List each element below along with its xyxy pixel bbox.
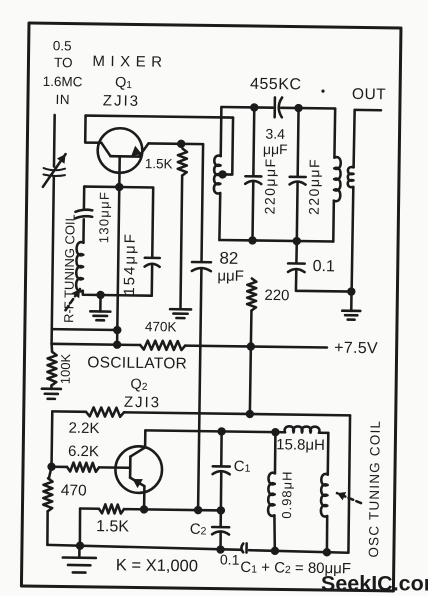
capacitor C1 — [220, 431, 223, 466]
speck — [321, 90, 324, 93]
wire 1.5K to ground — [180, 176, 182, 309]
svg-text:MIXER: MIXER — [92, 53, 167, 71]
coil IF secondary — [333, 109, 336, 158]
svg-text:OUT: OUT — [352, 86, 386, 103]
svg-text:82: 82 — [219, 249, 238, 268]
wire osc top line left — [52, 410, 86, 413]
capacitor 0.1 series — [241, 544, 243, 553]
wire IF primary top — [219, 107, 222, 156]
wire collector line — [145, 430, 285, 432]
node ground bottom — [76, 541, 85, 550]
svg-text:SeekIC.com: SeekIC.com — [321, 572, 428, 596]
node C2 bottom — [216, 545, 225, 554]
wire +7.5V rail left — [52, 344, 141, 345]
capacitor 0.1 IF — [295, 241, 298, 263]
Q2 base bar — [129, 457, 132, 478]
wire base column through box — [117, 187, 119, 345]
node IF top right — [294, 104, 303, 113]
wire Q1 emitter right — [148, 142, 203, 145]
wire Q1 collector left — [85, 116, 102, 143]
svg-text:TO: TO — [54, 55, 73, 70]
wire IF bottom line — [219, 240, 333, 242]
wire emitter to 82uuF — [202, 144, 204, 262]
svg-text:220μμF: 220μμF — [306, 158, 323, 215]
wire antenna junction horizontal — [52, 328, 117, 331]
Q1 base lead down — [118, 156, 121, 187]
resistor 470K — [140, 341, 185, 351]
wire osc left column — [50, 411, 53, 466]
node C1 top — [217, 427, 226, 436]
RF tank bottom edge — [83, 291, 152, 296]
coil 0.98uH — [274, 432, 277, 473]
Q2 collector lead — [130, 430, 145, 457]
Q1 base bar — [111, 155, 139, 158]
coil IF primary — [214, 156, 221, 194]
RF tank box top — [84, 185, 153, 188]
coil output coupling — [354, 110, 355, 167]
wire +7.5V rail right — [185, 346, 327, 348]
node 0.98uH top — [271, 428, 280, 437]
Q2 emitter lead with arrow — [130, 478, 145, 486]
ground output — [350, 292, 353, 311]
node feedback join — [194, 506, 203, 515]
node osc coil bottom — [323, 548, 332, 557]
node base-antenna junction — [113, 326, 122, 335]
svg-text:ZJI3: ZJI3 — [103, 92, 140, 109]
svg-text:K = X1,000: K = X1,000 — [116, 556, 198, 575]
arrow RF coil pointer — [65, 289, 80, 311]
capacitor C2 — [219, 510, 222, 526]
Q1 collector lead — [101, 143, 110, 156]
resistor 470 — [43, 478, 52, 511]
svg-text:154μμF: 154μμF — [121, 232, 139, 296]
svg-text:470K: 470K — [145, 319, 177, 334]
wire Q1 collector top line — [86, 116, 233, 118]
ground 100K — [50, 385, 53, 388]
wire bottom rail right — [249, 550, 349, 553]
wire below 130uuF — [82, 219, 85, 242]
coil osc tuning right — [326, 433, 329, 475]
transistor Q1 circle — [97, 128, 142, 173]
capacitor 3.4uuF — [273, 97, 276, 117]
svg-text:OSC TUNING COIL: OSC TUNING COIL — [366, 420, 383, 558]
svg-text:ZJI3: ZJI3 — [124, 394, 161, 411]
svg-text:220: 220 — [264, 287, 289, 304]
svg-text:+7.5V: +7.5V — [334, 340, 378, 358]
svg-text:R-F TUNING COIL: R-F TUNING COIL — [61, 214, 77, 323]
wire 82uuF down feedback — [198, 269, 201, 510]
wire top line to transformer tap — [223, 117, 233, 174]
ground 1.5K — [170, 308, 191, 311]
wire to 470 — [49, 467, 52, 479]
capacitor 130uuF — [75, 210, 92, 213]
resistor 2.2K — [86, 407, 124, 417]
capacitor 220uuF right — [296, 108, 299, 177]
wire 220 to oscillator — [250, 347, 251, 414]
RF tank right edge lower — [150, 265, 153, 296]
RF tank right edge upper — [151, 187, 154, 257]
node Q1 base at box top — [115, 183, 124, 192]
variable capacitor antenna tuning — [44, 168, 66, 170]
resistor 6.2K — [52, 465, 67, 468]
transistor Q2 circle — [115, 446, 162, 493]
wire osc emitter line — [80, 507, 99, 510]
node RF tank ground tap — [96, 291, 105, 300]
svg-text:3.4: 3.4 — [265, 126, 285, 142]
wire antenna to junction — [52, 176, 54, 329]
ground RF tank — [99, 295, 102, 311]
node IF bottom right — [293, 237, 302, 246]
svg-text:100K: 100K — [58, 353, 73, 384]
capacitor 154uuF — [145, 257, 160, 260]
svg-text:0.1: 0.1 — [220, 551, 240, 567]
resistor 1.5K osc — [99, 504, 124, 513]
wire Q2 emitter down — [143, 486, 146, 509]
node Q2 emitter — [140, 505, 149, 514]
node 1.5K top — [177, 140, 186, 149]
wire IF primary bottom — [218, 193, 221, 240]
svg-text:6.2K: 6.2K — [68, 443, 99, 460]
node 220 at rail — [247, 342, 256, 351]
node C1 C2 join — [217, 506, 226, 515]
coil 15.8uH — [285, 426, 320, 432]
svg-text:0.98μH: 0.98μH — [279, 470, 295, 518]
node transformer tap — [218, 170, 227, 179]
svg-text:0.5: 0.5 — [53, 38, 72, 53]
svg-text:1.5K: 1.5K — [96, 518, 129, 535]
wire antenna input — [53, 115, 56, 167]
svg-text:2.2K: 2.2K — [68, 420, 99, 437]
node 6.2K left — [47, 462, 56, 471]
svg-text:470: 470 — [61, 482, 87, 499]
svg-text:455KC: 455KC — [250, 76, 302, 94]
svg-text:0.1: 0.1 — [313, 258, 336, 275]
node 0.98 bottom — [271, 547, 280, 556]
svg-text:OSCILLATOR: OSCILLATOR — [87, 354, 187, 372]
resistor 220 — [247, 278, 256, 310]
RF tank left edge upper — [83, 187, 86, 209]
Q1 emitter lead with arrow — [139, 143, 148, 156]
svg-text:IN: IN — [56, 92, 71, 107]
wire tank right side — [348, 415, 350, 552]
svg-text:μμF: μμF — [263, 141, 288, 157]
node IF top left — [250, 103, 259, 112]
wire IF top line — [221, 106, 272, 109]
coil RF tuning — [76, 242, 83, 291]
wire osc top line right — [124, 412, 350, 415]
capacitor 82uuF — [192, 261, 211, 264]
node 220 osc top — [246, 410, 255, 419]
node output ground junction — [347, 287, 356, 296]
wire bottom rail — [47, 545, 241, 550]
node base-bias junction — [113, 340, 122, 349]
arrow variable cap — [43, 154, 66, 187]
wire 1.5K corner to rail — [78, 509, 81, 546]
svg-text:1.6MC: 1.6MC — [43, 74, 83, 90]
arrow osc coil pointer — [337, 493, 361, 503]
wire antenna down to rail — [50, 329, 53, 344]
svg-text:μμF: μμF — [217, 268, 244, 285]
svg-text:15.8μH: 15.8μH — [276, 436, 325, 454]
resistor 100K — [50, 344, 53, 352]
svg-text:1.5K: 1.5K — [145, 156, 173, 171]
svg-text:220μμF: 220μμF — [262, 157, 279, 214]
resistor 1.5K mixer — [178, 149, 187, 176]
capacitor 220uuF left — [252, 107, 255, 176]
svg-text:130μμF: 130μμF — [96, 191, 112, 244]
ground main — [78, 546, 81, 558]
node IF bottom left — [248, 236, 257, 245]
wire OUT stub — [355, 109, 381, 112]
